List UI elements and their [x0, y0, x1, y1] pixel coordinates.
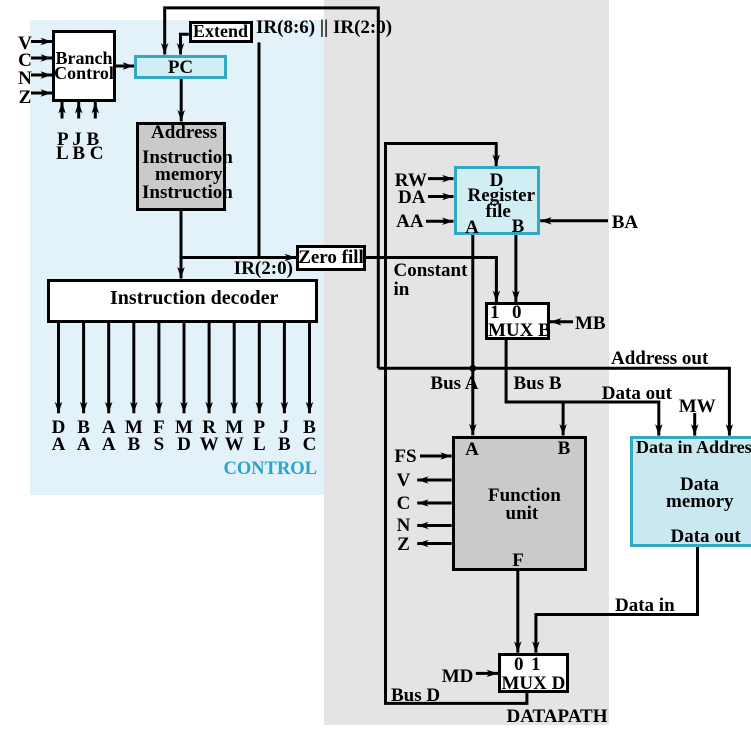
wire Bus A from Register file A to Function unit A: [471, 235, 474, 436]
branch control: [52, 30, 116, 102]
decoder output labels JB: [271, 419, 297, 453]
wire BC up into Branch Control: [94, 102, 97, 119]
instruction decoder: [47, 279, 319, 324]
label V status: [394, 471, 414, 490]
label AA: [396, 212, 423, 231]
wire BA input: [540, 219, 608, 222]
mux B: [485, 302, 551, 340]
PC register: [134, 55, 227, 80]
decoder output labels MB: [121, 419, 147, 453]
label DATAPATH: [507, 707, 608, 726]
wire C input to Branch Control: [31, 57, 52, 60]
wire Bus B branch to Function unit B: [562, 402, 565, 436]
wire N status output: [417, 524, 452, 527]
wire JB up into Branch Control: [77, 102, 80, 119]
wire decoder output MD: [183, 323, 186, 414]
label N status: [394, 516, 414, 535]
wire Branch Control to PC: [116, 65, 135, 68]
decoder output labels FS: [146, 419, 172, 453]
wire decoder output AA: [107, 323, 110, 414]
wire decoder output BC: [308, 323, 311, 414]
wire MB select input: [550, 320, 573, 323]
decoder output labels MW: [221, 419, 247, 453]
wire FS input to Function unit: [420, 455, 452, 458]
zero fill: [296, 245, 366, 272]
wire decoder output DA: [57, 323, 60, 414]
label Address out: [611, 349, 708, 368]
wire AA input: [426, 220, 454, 223]
wire V input to Branch Control: [31, 40, 52, 43]
mux D: [498, 653, 569, 693]
wire decoder output RW: [208, 323, 211, 414]
wire DA input: [428, 195, 454, 198]
wire Z input to Branch Control: [31, 92, 52, 95]
decoder output labels BA: [71, 419, 97, 453]
DATAPATH panel background: [324, 0, 609, 725]
wire Function unit F to MUX D input 0: [516, 570, 519, 653]
instruction memory: [136, 122, 226, 212]
wire IR bits to Extend: [258, 42, 261, 257]
wire Register file B output to MUX B input 0: [514, 235, 517, 302]
label Bus A: [430, 374, 478, 393]
decoder output labels AA: [96, 419, 122, 453]
label DA: [398, 188, 425, 207]
label RW: [395, 171, 427, 190]
label V input: [15, 34, 35, 53]
wire V status output: [417, 479, 452, 482]
wire N input to Branch Control: [31, 74, 52, 77]
wire Instruction to Instruction decoder: [180, 211, 183, 279]
label MW: [679, 397, 716, 416]
label N input: [15, 69, 35, 88]
label P J B: [57, 130, 99, 149]
decoder output labels PL: [246, 419, 272, 453]
wire decoder output BA: [82, 323, 85, 414]
extend: [189, 21, 253, 43]
label C status: [394, 494, 414, 513]
wire Extend to PC: [181, 34, 189, 54]
label Constant in: [394, 262, 468, 299]
label FS: [394, 447, 416, 466]
wire PL up into Branch Control: [61, 102, 64, 119]
label Z status: [394, 535, 414, 554]
wire IR(2:0) to Zero fill: [181, 256, 296, 259]
label MD: [442, 667, 474, 686]
label Data in: [615, 596, 675, 615]
label Bus B: [514, 374, 562, 393]
function unit: [452, 436, 587, 571]
wire decoder output FS: [157, 323, 160, 414]
decoder output labels RW: [196, 419, 222, 453]
label MB: [575, 314, 606, 333]
wire C status output: [417, 502, 452, 505]
label IR(8:6) || IR(2:0): [256, 18, 392, 37]
label IR(2:0): [234, 259, 293, 278]
wire MW input to Data memory: [693, 413, 696, 436]
wire Bus B from MUX B to data out and memory: [506, 340, 659, 436]
register file: [454, 166, 541, 235]
label L B C: [56, 144, 104, 163]
wire RW input: [428, 177, 454, 180]
decoder output labels MD: [171, 419, 197, 453]
wire Bus A feedback to PC (top): [165, 8, 379, 368]
decoder output labels DA: [46, 419, 72, 453]
wire Address out to Data memory: [378, 368, 729, 435]
data memory: [630, 436, 751, 548]
wire decoder output JB: [283, 323, 286, 414]
wire MD select input: [476, 672, 498, 675]
CONTROL panel background: [30, 20, 324, 495]
label BA: [612, 213, 638, 232]
wire Z status output: [417, 542, 452, 545]
label CONTROL: [224, 460, 318, 479]
wire Zero fill constant to MUX B input 1: [366, 258, 496, 303]
wire decoder output MW: [233, 323, 236, 414]
wire Bus D from MUX D to Register file D: [386, 144, 527, 704]
label Bus D: [391, 686, 440, 705]
label Data out: [602, 384, 672, 403]
label Z input: [15, 88, 35, 107]
junction Bus A / Address out: [469, 365, 476, 372]
wire PC to Instruction memory Address: [180, 79, 183, 122]
wire decoder output MB: [132, 323, 135, 414]
decoder output labels BC: [297, 419, 323, 453]
wire Data memory Data out to MUX D input 1: [536, 547, 698, 653]
label C input: [15, 51, 35, 70]
wire decoder output PL: [258, 323, 261, 414]
